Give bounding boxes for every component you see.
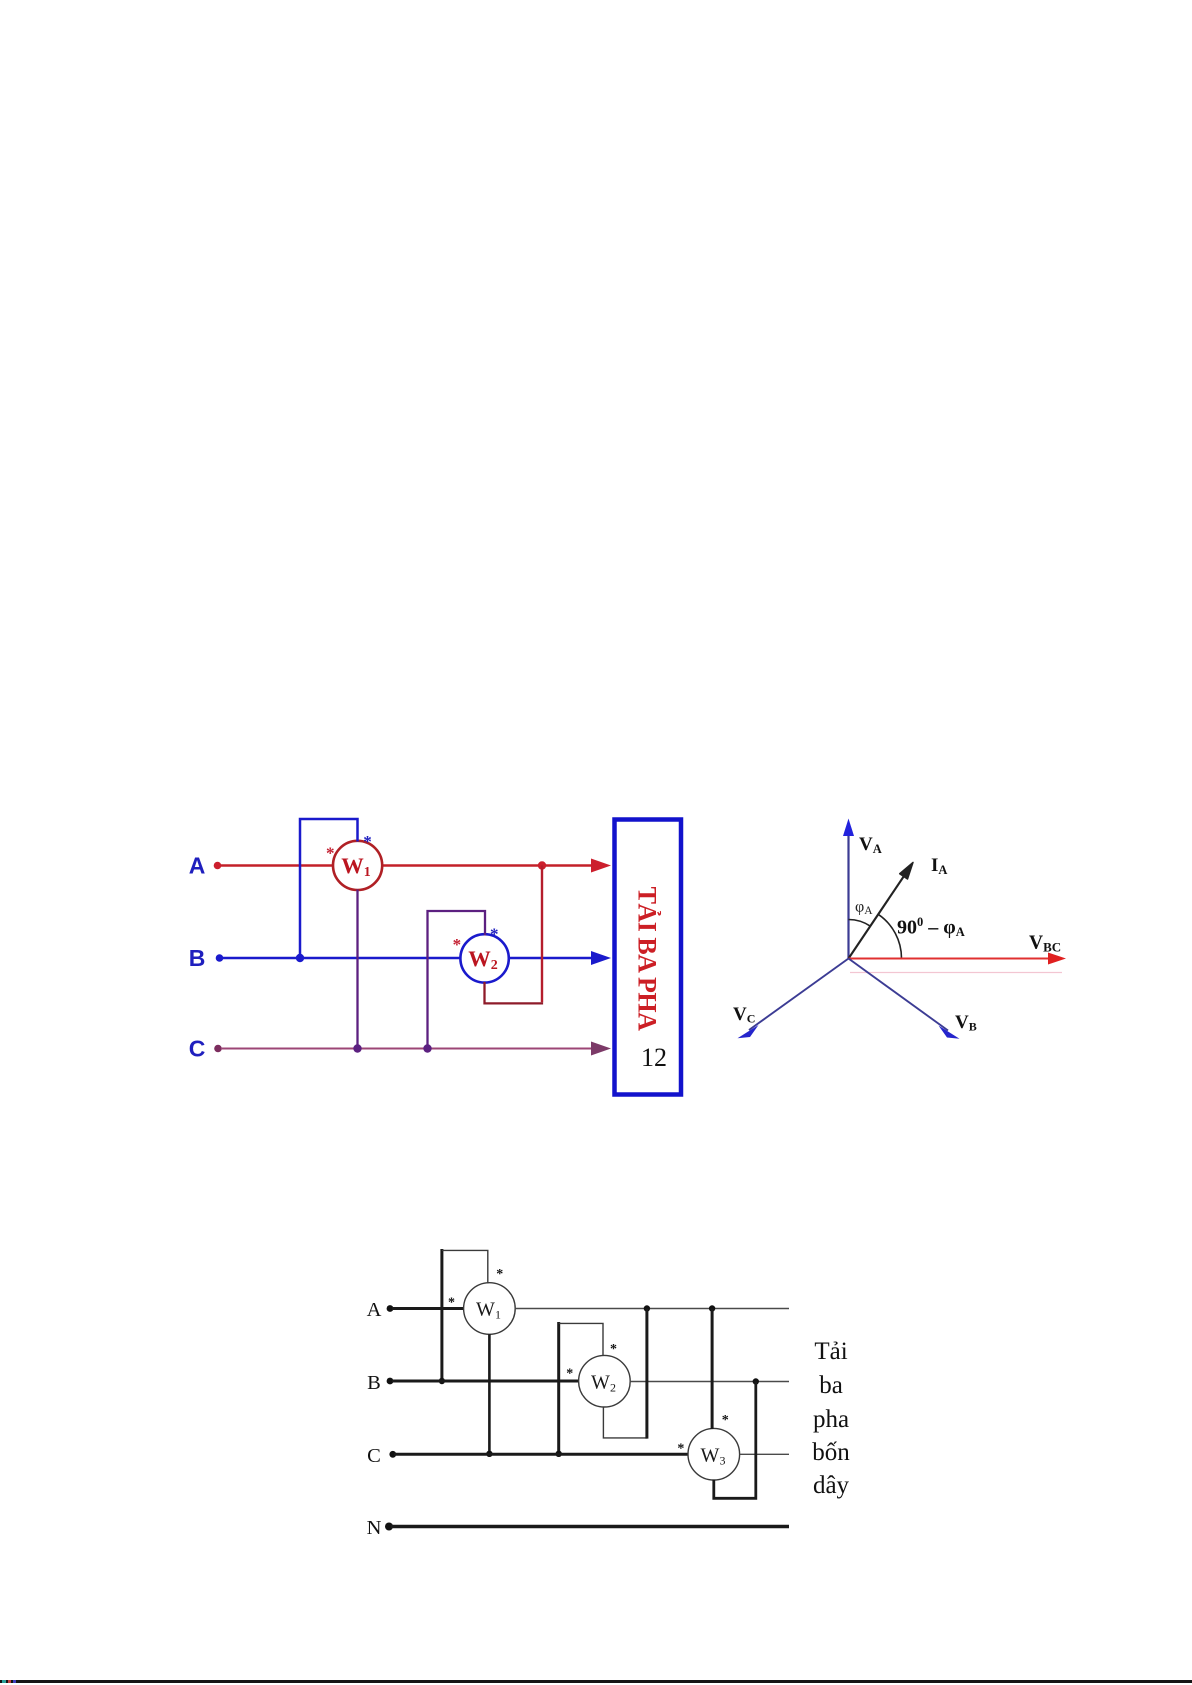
vector VA arrowhead [843, 819, 854, 837]
junction node C / W1 coil [353, 1044, 361, 1052]
svg-text:bốn: bốn [812, 1439, 850, 1466]
junction dot on C [486, 1451, 492, 1457]
terminal dot A [387, 1305, 394, 1312]
wire phase A left (thick) [392, 1307, 464, 1310]
wire phase C left (thick) [394, 1453, 688, 1456]
vector VBC arrowhead [1048, 953, 1066, 965]
terminal dot C [214, 1045, 222, 1053]
svg-text:B: B [189, 945, 206, 971]
svg-text:A: A [367, 1299, 382, 1321]
vector VC arrowhead [738, 1025, 759, 1038]
wire voltage coil W1 to B (blue loop) [300, 819, 358, 958]
terminal dot A [214, 862, 222, 870]
svg-text:*: * [610, 1342, 617, 1357]
ghost line under VBC [850, 972, 1062, 974]
junction dot on C [556, 1451, 562, 1457]
svg-text:Tải: Tải [814, 1338, 847, 1365]
wattmeter W2 [579, 1355, 631, 1407]
wire phase B right (thin) [630, 1381, 789, 1383]
svg-text:900 – φA: 900 – φA [897, 915, 965, 939]
angle arc phiA [849, 920, 871, 927]
svg-text:ba: ba [819, 1372, 843, 1399]
vector VA shaft [847, 830, 849, 959]
wattmeter W1 [333, 841, 382, 890]
wire voltage coil W1 loop to B [440, 1249, 443, 1381]
wattmeter W2 [460, 934, 508, 982]
arrowhead A into load [591, 859, 611, 873]
junction dot on B [439, 1378, 445, 1384]
junction node on A [538, 861, 546, 869]
svg-text:*: * [490, 925, 499, 944]
vector VC shaft [749, 959, 849, 1031]
svg-text:pha: pha [813, 1406, 849, 1433]
wire W3 bottom hook to B [714, 1382, 756, 1499]
wire voltage coil W2 loop to C [557, 1322, 560, 1454]
wattmeter W3 [688, 1428, 740, 1480]
vector VBC shaft (red) [849, 958, 1053, 960]
svg-text:*: * [453, 935, 462, 954]
wire phase C (mauve) [221, 1048, 594, 1050]
wire phase A right (thin) [515, 1308, 789, 1310]
angle arc 90-phiA [878, 914, 902, 958]
wire W2 bottom hook to A [603, 1407, 647, 1438]
svg-text:*: * [677, 1442, 684, 1457]
vector VB shaft [849, 959, 949, 1031]
vector VB arrowhead [939, 1026, 960, 1039]
svg-text:N: N [367, 1517, 382, 1539]
junction dot B / W3 coil [753, 1378, 759, 1384]
arrowhead C into load [591, 1042, 611, 1056]
wire voltage coil W2 to C (purple loop) [428, 911, 486, 1049]
vector IA arrowhead [900, 862, 913, 879]
svg-text:12: 12 [641, 1043, 667, 1072]
svg-text:TẢI BA PHA: TẢI BA PHA [633, 887, 662, 1032]
terminal dot B [216, 954, 224, 962]
wire neutral N [391, 1525, 789, 1528]
junction node C / W2 coil [423, 1044, 431, 1052]
svg-text:*: * [363, 832, 372, 851]
wire phase C right (thin) [740, 1453, 789, 1455]
svg-text:*: * [722, 1413, 729, 1428]
terminal dot C [389, 1451, 396, 1458]
svg-text:A: A [189, 853, 206, 879]
wire phase B left (thick) [392, 1380, 579, 1383]
wire phase A (red) [221, 864, 594, 866]
junction dot A / W3 coil [709, 1305, 715, 1311]
load box TAI BA PHA [615, 820, 682, 1095]
svg-text:*: * [566, 1367, 573, 1382]
junction node on B [296, 954, 304, 962]
vector IA shaft [849, 876, 905, 959]
svg-text:C: C [367, 1445, 381, 1467]
terminal dot N [385, 1523, 393, 1531]
svg-text:*: * [496, 1267, 503, 1282]
terminal dot B [387, 1378, 394, 1385]
wire phase B (blue) [223, 957, 594, 959]
junction dot A / W2 coil [644, 1305, 650, 1311]
svg-text:*: * [326, 844, 335, 863]
svg-text:B: B [367, 1372, 381, 1394]
arrowhead B into load [591, 951, 611, 965]
wire jumper A junction to W2 bottom (red) [541, 866, 543, 1003]
svg-text:*: * [448, 1296, 455, 1311]
wire W1 bottom to C (purple) [356, 890, 358, 1049]
wire voltage coil W3 from A [711, 1309, 714, 1430]
svg-text:dây: dây [813, 1472, 850, 1499]
wire W1 bottom to C [488, 1334, 491, 1454]
svg-text:C: C [189, 1036, 206, 1062]
wattmeter W1 [464, 1283, 516, 1335]
page bottom rule [0, 1680, 1192, 1683]
